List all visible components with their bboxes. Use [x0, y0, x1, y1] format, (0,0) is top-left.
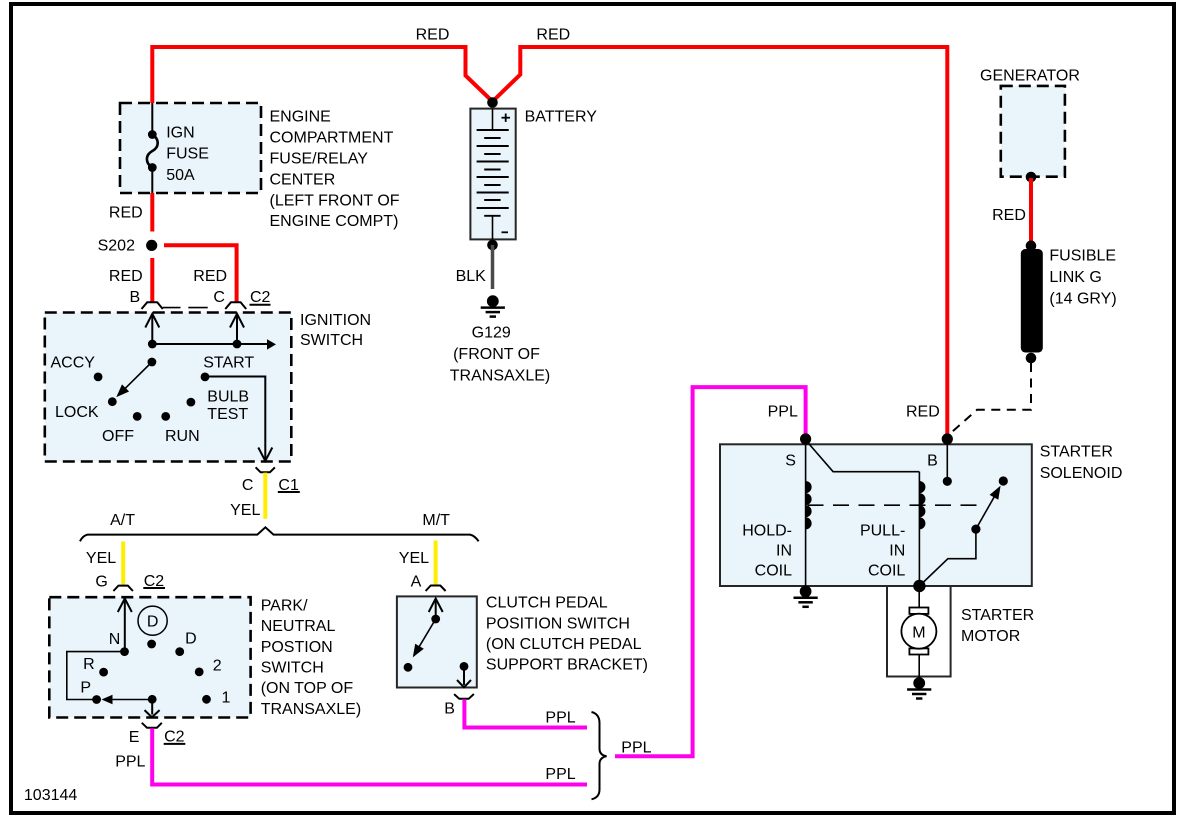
ignition switch contact LOCK: [55, 397, 117, 421]
svg-text:COMPARTMENT: COMPARTMENT: [270, 130, 394, 147]
motor feed junction dot: [913, 580, 925, 592]
park/neutral position switch box: [49, 597, 250, 717]
svg-text:IGN: IGN: [166, 125, 194, 142]
connector C1 pin C: [242, 467, 275, 494]
clutch switch A arrow: [429, 599, 443, 620]
svg-text:OFF: OFF: [102, 428, 134, 445]
svg-text:START: START: [203, 354, 254, 371]
svg-text:RED: RED: [109, 268, 143, 285]
park/neutral G output arrow: [118, 599, 132, 652]
ground starter motor: [907, 677, 931, 698]
svg-text:SUPPORT BRACKET): SUPPORT BRACKET): [486, 657, 648, 674]
connector C2 pin B: [130, 289, 163, 309]
svg-text:RED: RED: [906, 403, 940, 420]
svg-text:S202: S202: [98, 238, 135, 255]
label C2 (E): [164, 729, 186, 746]
wire B to switch contact: [946, 440, 948, 481]
svg-text:TRANSAXLE): TRANSAXLE): [450, 368, 550, 385]
svg-text:STARTER: STARTER: [961, 607, 1034, 624]
contact 1: [202, 690, 230, 707]
svg-text:SWITCH: SWITCH: [261, 660, 324, 677]
svg-text:P: P: [80, 680, 91, 697]
selector wiper contact dot: [147, 640, 156, 649]
svg-text:PPL: PPL: [768, 404, 798, 421]
svg-text:BLK: BLK: [456, 268, 487, 285]
ignition switch C feed arrow: [230, 314, 244, 344]
svg-text:COIL: COIL: [755, 563, 792, 580]
svg-text:ACCY: ACCY: [51, 355, 96, 372]
wire RED S202 to ignition switch B: [150, 258, 154, 302]
svg-text:(14 GRY): (14 GRY): [1049, 291, 1116, 308]
svg-text:1: 1: [222, 690, 231, 707]
svg-text:B: B: [927, 452, 938, 469]
solenoid contact arm with arrow: [971, 486, 1000, 534]
svg-text:PPL: PPL: [115, 754, 145, 771]
contact D: [175, 631, 196, 656]
svg-text:FUSE/RELAY: FUSE/RELAY: [270, 151, 369, 168]
svg-text:SWITCH: SWITCH: [300, 332, 363, 349]
wire RED S202 to ignition switch C: [164, 245, 237, 302]
connector dashed line between pins: [163, 307, 208, 309]
svg-text:(ON CLUTCH PEDAL: (ON CLUTCH PEDAL: [486, 636, 642, 653]
svg-text:PULL-: PULL-: [860, 523, 905, 540]
contact R: [83, 656, 108, 676]
wire YEL ignition C1 to splice: [263, 473, 267, 519]
svg-text:POSITION SWITCH: POSITION SWITCH: [486, 615, 630, 632]
svg-text:MOTOR: MOTOR: [961, 628, 1020, 645]
starter solenoid box: [720, 444, 1032, 586]
svg-text:(FRONT OF: (FRONT OF: [453, 346, 540, 363]
clutch pedal position switch box: [397, 596, 477, 687]
svg-text:RED: RED: [992, 207, 1026, 224]
label CLUTCH PEDAL POSITION SWITCH: [486, 595, 648, 674]
svg-text:C: C: [213, 289, 225, 306]
generator terminal dot: [1026, 172, 1037, 183]
svg-text:GENERATOR: GENERATOR: [980, 68, 1080, 85]
mechanical linkage dashed: [808, 504, 984, 506]
svg-text:(ON TOP OF: (ON TOP OF: [261, 680, 354, 697]
svg-text:YEL: YEL: [86, 550, 116, 567]
ignition switch contact RUN: [161, 412, 199, 445]
svg-text:103144: 103144: [24, 787, 77, 804]
svg-text:M/T: M/T: [422, 512, 450, 529]
svg-text:TRANSAXLE): TRANSAXLE): [261, 701, 361, 718]
svg-text:BATTERY: BATTERY: [525, 109, 598, 126]
label C1: [278, 477, 300, 494]
svg-text:R: R: [83, 656, 95, 673]
junction dot B bus: [148, 340, 157, 349]
fuse IGN FUSE 50A: [147, 103, 209, 193]
svg-text:(LEFT FRONT OF: (LEFT FRONT OF: [270, 192, 400, 209]
pull-in coil: [860, 472, 926, 586]
svg-text:COIL: COIL: [868, 563, 905, 580]
wire BLK battery to ground: [491, 245, 495, 289]
ignition switch rotor arrow: [116, 358, 156, 398]
svg-text:N: N: [109, 631, 121, 648]
solenoid contact dot (upper): [999, 476, 1008, 485]
battery: [470, 109, 515, 240]
svg-text:2: 2: [213, 657, 222, 674]
svg-text:YEL: YEL: [230, 502, 260, 519]
ignition switch contact START with output arrow: [201, 354, 273, 461]
label STARTER SOLENOID: [1040, 443, 1123, 482]
terminal B dot: [927, 433, 953, 469]
wire wiper to P with arrow: [102, 695, 153, 705]
svg-text:A/T: A/T: [110, 512, 135, 529]
fuse box: engine compartment fuse/relay center: [120, 103, 261, 193]
label IGNITION SWITCH: [300, 312, 371, 349]
ignition switch bus wire with right arrow: [152, 339, 276, 349]
wire N to P inside switch: [67, 652, 125, 700]
hold-in coil: [742, 440, 811, 586]
ground G129: [450, 295, 550, 384]
ignition switch box: [45, 313, 291, 462]
svg-text:ENGINE COMPT): ENGINE COMPT): [270, 213, 399, 230]
clutch switch movable contact arm: [413, 615, 440, 658]
clutch switch B contact with arrow: [457, 662, 471, 687]
splice S202: [98, 238, 158, 255]
svg-text:RED: RED: [193, 268, 227, 285]
splice brace A/T M/T: [80, 527, 479, 541]
svg-text:SOLENOID: SOLENOID: [1040, 465, 1123, 482]
wire RED generator to fusible link: [1029, 178, 1033, 246]
connector pin A: [411, 573, 446, 591]
svg-text:M: M: [912, 625, 925, 642]
wire RED fuse box to S202: [150, 193, 154, 232]
svg-text:50A: 50A: [166, 167, 195, 184]
svg-text:HOLD-: HOLD-: [742, 523, 792, 540]
fusible link G (14 GRY): [1021, 248, 1117, 353]
label C2 (G): [143, 573, 165, 590]
svg-text:FUSIBLE: FUSIBLE: [1049, 248, 1116, 265]
svg-text:RED: RED: [109, 205, 143, 222]
svg-text:IN: IN: [889, 543, 905, 560]
label ENGINE COMPARTMENT FUSE/RELAY CENTER: [270, 109, 400, 231]
starter motor M: [901, 586, 936, 680]
svg-text:YEL: YEL: [399, 550, 429, 567]
wire PPL park/neutral E to brace: [152, 728, 587, 784]
svg-text:STARTER: STARTER: [1040, 443, 1113, 460]
battery negative terminal dot: [487, 240, 498, 251]
park/neutral E output arrow: [145, 695, 160, 717]
starter motor frame: [887, 586, 951, 677]
svg-text:B: B: [130, 289, 141, 306]
wire PPL clutch B to brace: [464, 699, 587, 727]
clutch switch fixed contact: [404, 663, 413, 672]
svg-text:D: D: [185, 631, 197, 648]
wire S to pull-in coil: [806, 440, 920, 472]
svg-text:BULB: BULB: [207, 388, 249, 405]
fusible link top dot: [1026, 241, 1037, 252]
svg-text:D: D: [147, 614, 159, 631]
svg-text:S: S: [785, 452, 796, 469]
svg-text:IN: IN: [776, 543, 792, 560]
wire RED top-left: fuse box to battery: [152, 47, 492, 104]
svg-text:ENGINE: ENGINE: [270, 109, 331, 126]
svg-text:B: B: [444, 701, 455, 718]
svg-text:PARK/: PARK/: [261, 597, 308, 614]
contact P: [80, 680, 101, 704]
junction dot C bus: [233, 340, 242, 349]
svg-text:E: E: [129, 729, 140, 746]
svg-text:PPL: PPL: [545, 710, 575, 727]
svg-text:FUSE: FUSE: [166, 145, 209, 162]
svg-text:IGNITION: IGNITION: [300, 312, 371, 329]
svg-text:A: A: [411, 573, 422, 590]
svg-text:G: G: [95, 573, 107, 590]
svg-text:C2: C2: [250, 289, 271, 306]
svg-text:PPL: PPL: [545, 766, 575, 783]
selector position circle D: [138, 606, 167, 635]
wire YEL A/T branch: [121, 542, 125, 586]
dashed link fusible link to solenoid B: [949, 363, 1032, 435]
contact N: [109, 631, 129, 656]
svg-text:PPL: PPL: [621, 740, 651, 757]
label C2: [250, 289, 271, 306]
svg-text:G129: G129: [472, 324, 511, 341]
svg-text:POSTION: POSTION: [261, 639, 333, 656]
connector C2 pin E: [129, 723, 162, 746]
ignition switch B feed arrow: [145, 314, 159, 344]
fusible link bottom dot: [1026, 353, 1037, 364]
svg-text:TEST: TEST: [207, 406, 248, 423]
ignition switch contact ACCY: [51, 355, 103, 382]
terminal S dot: [785, 433, 811, 469]
label STARTER MOTOR: [961, 607, 1034, 645]
wire RED top-right: battery to solenoid B: [493, 47, 948, 437]
connector C2 pin G: [95, 573, 132, 591]
ground hold-in coil: [794, 586, 818, 607]
svg-text:C: C: [242, 477, 254, 494]
label PARK/NEUTRAL POSTION SWITCH: [261, 597, 361, 718]
switch contact dot (B side): [943, 477, 952, 486]
svg-text:RUN: RUN: [165, 428, 200, 445]
svg-text:CLUTCH PEDAL: CLUTCH PEDAL: [486, 595, 608, 612]
svg-text:RED: RED: [536, 26, 570, 43]
svg-text:RED: RED: [416, 26, 450, 43]
ignition switch contact OFF: [102, 412, 142, 445]
wire motor feed to contact arm: [919, 529, 976, 586]
ignition switch contact BULB TEST: [187, 388, 250, 423]
svg-text:LINK G: LINK G: [1049, 269, 1101, 286]
wire YEL M/T branch: [434, 541, 438, 586]
brace PPL junction: [592, 712, 607, 799]
wire PPL brace to solenoid S: [615, 387, 806, 756]
svg-text:NEUTRAL: NEUTRAL: [261, 618, 336, 635]
connector C2 pin C: [213, 289, 246, 309]
connector pin B: [444, 694, 474, 718]
generator box: [1001, 86, 1065, 177]
contact 2: [195, 657, 222, 676]
svg-text:LOCK: LOCK: [55, 404, 99, 421]
svg-text:CENTER: CENTER: [270, 171, 336, 188]
battery junction dot: [487, 97, 498, 108]
